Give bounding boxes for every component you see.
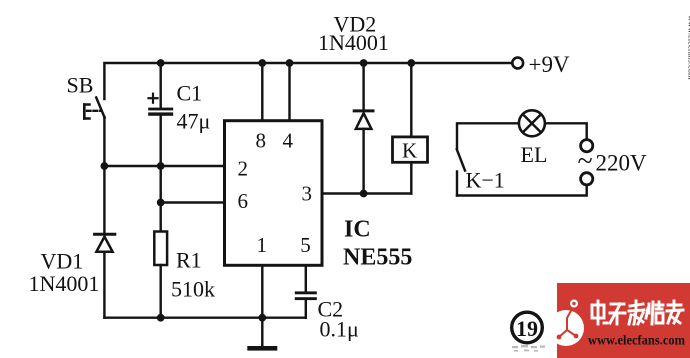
node junction VD2 top	[360, 59, 368, 67]
terminal 220V upper	[581, 140, 593, 152]
node junction relay top	[407, 59, 415, 67]
svg-text:4: 4	[283, 129, 294, 153]
svg-text:1: 1	[257, 233, 268, 257]
capacitor C1	[148, 63, 173, 166]
node junction VD2 bottom	[360, 190, 368, 198]
wire VD1 branch upper	[103, 166, 105, 234]
svg-text:IC: IC	[344, 217, 371, 243]
terminal 220V lower	[581, 173, 593, 185]
wire pin 4	[288, 63, 290, 121]
svg-text:www.elecfans.com: www.elecfans.com	[687, 15, 690, 80]
node junction pin6 tap	[157, 199, 165, 207]
wire pin6	[161, 201, 224, 203]
svg-text:NE555: NE555	[343, 245, 412, 271]
resistor R1	[154, 232, 167, 318]
wire lamp loop top right	[545, 123, 587, 139]
figure number 19	[512, 312, 543, 343]
wire pin 8	[261, 63, 263, 121]
switch SB	[84, 98, 104, 167]
svg-text:510k: 510k	[171, 277, 215, 302]
svg-text:19: 19	[516, 316, 538, 341]
svg-text:SB: SB	[67, 73, 94, 98]
svg-text:R1: R1	[176, 248, 202, 273]
watermark elecfans red banner	[548, 283, 690, 358]
svg-text:220V: 220V	[596, 151, 648, 176]
lamp EL	[519, 110, 545, 136]
svg-text:K: K	[402, 139, 417, 163]
node junction SB bottom	[101, 162, 109, 170]
wire top supply rail	[104, 63, 511, 99]
wire lamp loop top left	[457, 123, 519, 148]
wire bottom rail	[104, 316, 305, 318]
svg-text:1N4001: 1N4001	[29, 271, 100, 296]
node junction C1 top	[157, 59, 165, 67]
wire pin 1	[261, 265, 263, 317]
watermark logo disc	[548, 310, 584, 346]
diode VD1	[95, 234, 115, 318]
wire pin2 rail	[104, 165, 224, 167]
svg-text:C1: C1	[177, 81, 203, 106]
wire R1 upper	[159, 166, 161, 232]
capacitor C2	[295, 291, 317, 317]
svg-text:www.elecfans.com: www.elecfans.com	[588, 333, 686, 348]
svg-text:EL: EL	[521, 142, 548, 167]
svg-text:+9V: +9V	[529, 52, 570, 77]
wire pin 3	[322, 192, 411, 194]
switch K-1	[457, 150, 465, 196]
node junction pin4 top	[286, 59, 294, 67]
svg-text:2: 2	[238, 157, 249, 181]
node junction R1 bottom	[157, 314, 165, 322]
node junction C1 bottom	[157, 162, 165, 170]
diode VD2	[354, 63, 373, 194]
terminal +9V	[512, 58, 523, 69]
svg-text:VD1: VD1	[41, 248, 84, 273]
svg-text:1N4001: 1N4001	[318, 30, 389, 55]
svg-text:0.1μ: 0.1μ	[320, 317, 359, 342]
node junction pin8 top	[258, 59, 266, 67]
watermark stray gray marks	[512, 345, 545, 352]
relay K	[393, 63, 428, 194]
op-amp/timer IC NE555	[225, 121, 323, 266]
ground	[247, 318, 277, 351]
svg-text:47μ: 47μ	[177, 109, 211, 134]
svg-text:~: ~	[578, 146, 593, 177]
wire pin 5	[305, 265, 307, 291]
svg-text:5: 5	[300, 233, 311, 257]
watermark CJK text (stylized)	[592, 301, 683, 324]
svg-text:6: 6	[238, 189, 249, 213]
svg-text:8: 8	[256, 129, 267, 153]
wire lamp loop bottom	[457, 185, 587, 196]
svg-text:3: 3	[302, 182, 313, 206]
svg-text:K−1: K−1	[466, 168, 505, 193]
node junction ground tap	[258, 314, 266, 322]
